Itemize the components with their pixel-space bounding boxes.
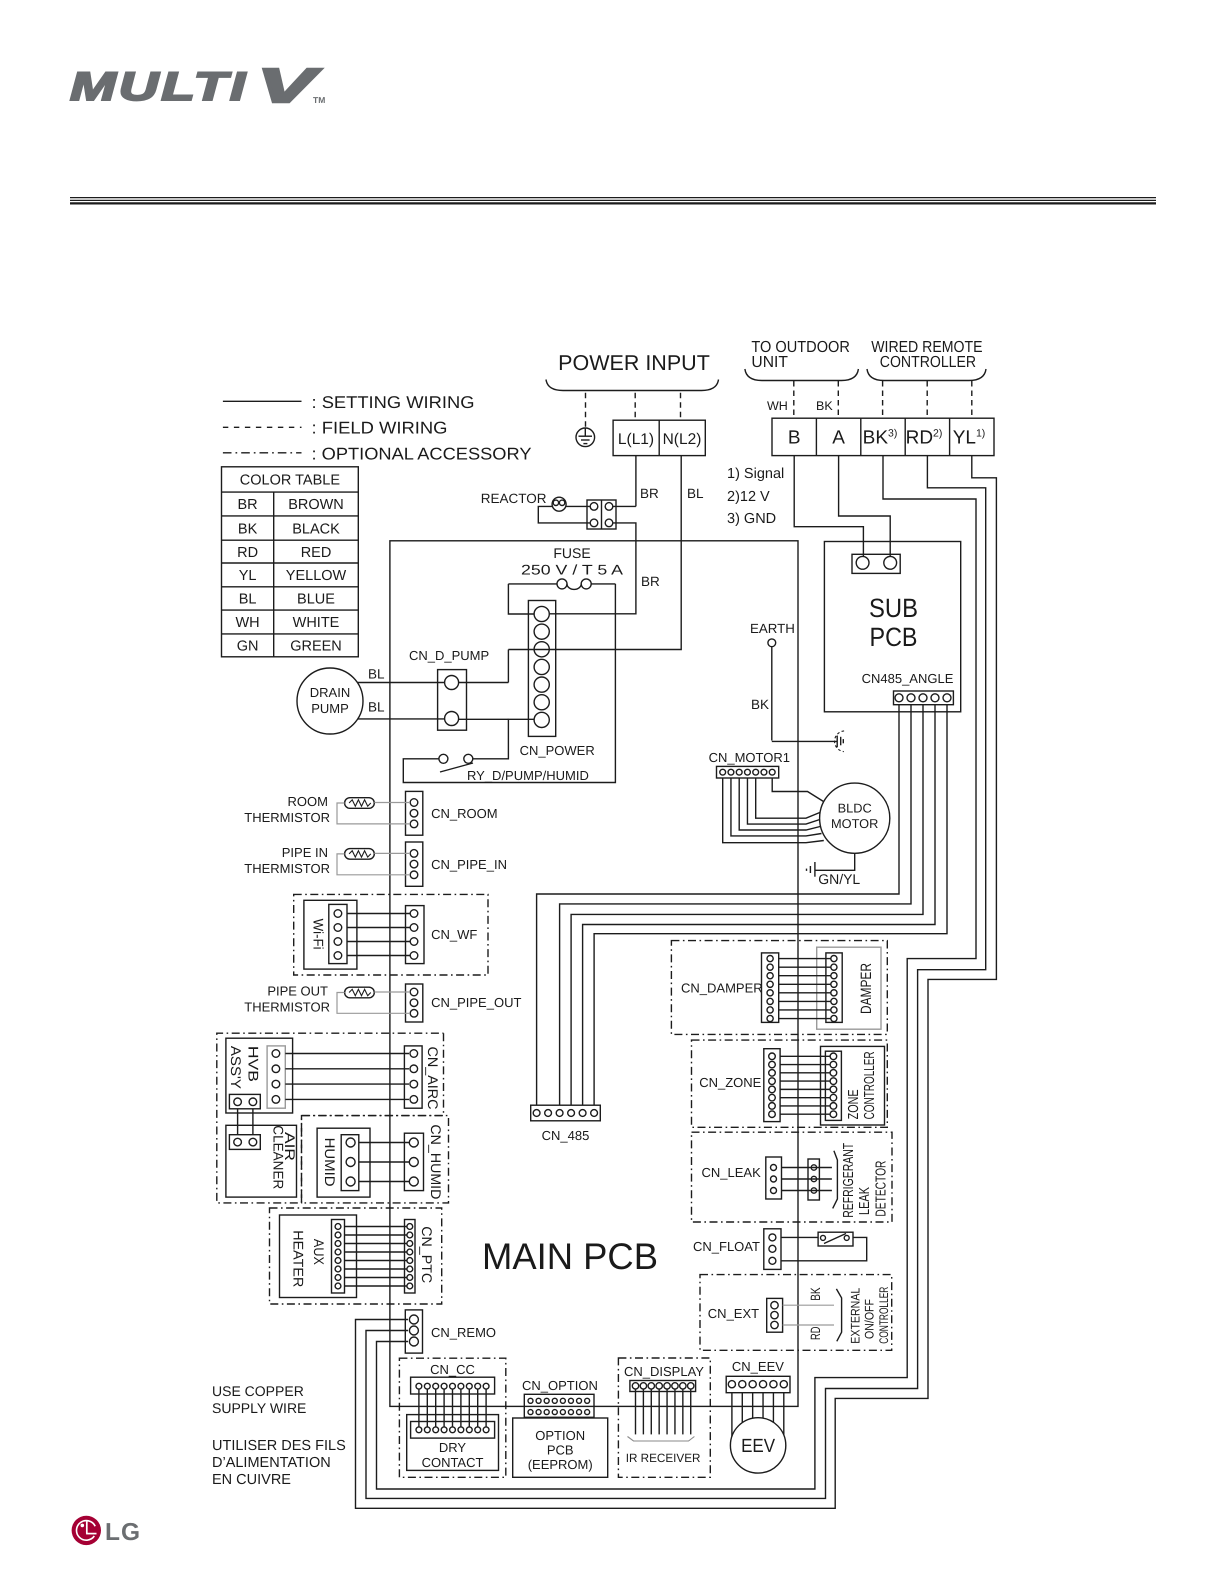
svg-text:CONTROLLER: CONTROLLER: [880, 354, 976, 371]
svg-text:: SETTING WIRING: : SETTING WIRING: [312, 393, 475, 412]
svg-text:GN/YL: GN/YL: [818, 871, 860, 887]
svg-text:RD: RD: [237, 545, 258, 561]
svg-text:BK: BK: [751, 697, 769, 712]
svg-text:HUMID: HUMID: [322, 1138, 338, 1187]
svg-text:CN_PIPE_OUT: CN_PIPE_OUT: [431, 995, 521, 1010]
svg-text:CN_DAMPER: CN_DAMPER: [681, 981, 763, 996]
svg-text:3) GND: 3) GND: [727, 511, 776, 527]
svg-text:EXTERNAL: EXTERNAL: [849, 1288, 863, 1344]
svg-text:COLOR TABLE: COLOR TABLE: [240, 473, 341, 489]
svg-text:SUB: SUB: [869, 593, 918, 623]
svg-text:THERMISTOR: THERMISTOR: [244, 861, 330, 876]
svg-text:D’ALIMENTATION: D’ALIMENTATION: [212, 1455, 331, 1471]
svg-text:THERMISTOR: THERMISTOR: [244, 1000, 330, 1015]
svg-text:BROWN: BROWN: [288, 497, 344, 513]
svg-text:OPTION: OPTION: [535, 1428, 585, 1443]
svg-text:PIPE OUT: PIPE OUT: [267, 984, 328, 999]
svg-text:DRY: DRY: [439, 1440, 467, 1455]
svg-text:CN_PTC: CN_PTC: [419, 1226, 435, 1283]
svg-text:(EEPROM): (EEPROM): [528, 1457, 593, 1472]
svg-text:PUMP: PUMP: [311, 701, 349, 716]
svg-text:PCB: PCB: [547, 1443, 574, 1458]
svg-text:CN_485: CN_485: [542, 1128, 590, 1143]
svg-text:AUX: AUX: [311, 1239, 327, 1266]
svg-text:RED: RED: [301, 545, 332, 561]
svg-text:PIPE IN: PIPE IN: [282, 845, 328, 860]
svg-text:CN_D_PUMP: CN_D_PUMP: [409, 648, 489, 663]
svg-text:BLACK: BLACK: [292, 521, 340, 537]
svg-text:CONTACT: CONTACT: [422, 1455, 484, 1470]
svg-text:WH: WH: [236, 615, 260, 631]
svg-text:USE COPPER: USE COPPER: [212, 1383, 304, 1399]
svg-text:CN_MOTOR1: CN_MOTOR1: [709, 750, 790, 765]
svg-text:CONTROLLER: CONTROLLER: [877, 1287, 891, 1344]
svg-text:PCB: PCB: [870, 622, 918, 652]
svg-text:THERMISTOR: THERMISTOR: [244, 810, 330, 825]
svg-text:Wi-Fi: Wi-Fi: [310, 919, 326, 950]
svg-text:DAMPER: DAMPER: [858, 963, 875, 1014]
svg-text:YL: YL: [239, 568, 257, 584]
svg-text:BK: BK: [238, 521, 258, 537]
svg-text:EARTH: EARTH: [750, 621, 795, 636]
svg-text:BK: BK: [808, 1287, 823, 1300]
svg-text:2)12 V: 2)12 V: [727, 489, 770, 505]
svg-text:1) Signal: 1) Signal: [727, 466, 784, 482]
svg-text:REFRIGERANT: REFRIGERANT: [841, 1143, 857, 1218]
svg-text:BR: BR: [238, 497, 258, 513]
svg-text:EEV: EEV: [741, 1436, 775, 1457]
svg-text:FUSE: FUSE: [553, 545, 590, 561]
svg-text:BR: BR: [640, 486, 659, 501]
svg-text:CN_DISPLAY: CN_DISPLAY: [624, 1364, 704, 1379]
svg-text:BLUE: BLUE: [297, 592, 335, 608]
svg-text:V: V: [257, 60, 322, 113]
svg-text:HEATER: HEATER: [290, 1230, 306, 1287]
svg-text:YELLOW: YELLOW: [286, 568, 347, 584]
svg-text:A: A: [832, 428, 845, 449]
svg-text:CN_CC: CN_CC: [430, 1362, 475, 1377]
svg-text:N(L2): N(L2): [663, 431, 702, 448]
svg-text:CN_POWER: CN_POWER: [520, 743, 595, 758]
svg-text:GN: GN: [237, 639, 259, 655]
svg-text:LEAK: LEAK: [857, 1187, 873, 1215]
svg-text:UTILISER DES FILS: UTILISER DES FILS: [212, 1438, 346, 1454]
svg-text:250 V / T 5 A: 250 V / T 5 A: [521, 562, 624, 578]
svg-text:CN_EXT: CN_EXT: [708, 1306, 759, 1321]
svg-text:DETECTOR: DETECTOR: [874, 1161, 890, 1217]
svg-text:ON/OFF: ON/OFF: [863, 1299, 877, 1339]
svg-text:BL: BL: [687, 486, 704, 501]
svg-text:TM: TM: [313, 95, 325, 105]
svg-text:CN_PIPE_IN: CN_PIPE_IN: [431, 857, 507, 872]
svg-text:L(L1): L(L1): [618, 431, 654, 448]
svg-text:CN_AIRC: CN_AIRC: [425, 1047, 441, 1110]
svg-text:MAIN PCB: MAIN PCB: [482, 1236, 658, 1277]
svg-text:CN_OPTION: CN_OPTION: [522, 1378, 598, 1393]
svg-text:: OPTIONAL ACCESSORY: : OPTIONAL ACCESSORY: [312, 444, 532, 463]
svg-text:WHITE: WHITE: [293, 615, 340, 631]
svg-text:BL: BL: [368, 667, 385, 682]
svg-text:CONTROLLER: CONTROLLER: [862, 1051, 878, 1119]
svg-text:LG: LG: [105, 1519, 141, 1546]
svg-text:CN_REMO: CN_REMO: [431, 1325, 496, 1340]
svg-text:ASS'Y: ASS'Y: [228, 1046, 244, 1090]
svg-text:BL: BL: [368, 700, 385, 715]
svg-text:RD: RD: [808, 1326, 823, 1340]
svg-text:CN_FLOAT: CN_FLOAT: [693, 1239, 760, 1254]
svg-text:BLDC: BLDC: [838, 801, 872, 816]
svg-text:EN CUIVRE: EN CUIVRE: [212, 1472, 291, 1488]
svg-text:SUPPLY WIRE: SUPPLY WIRE: [212, 1400, 306, 1416]
svg-text:CN_HUMID: CN_HUMID: [428, 1124, 444, 1199]
svg-text:BL: BL: [239, 592, 257, 608]
svg-text:CN485_ANGLE: CN485_ANGLE: [862, 671, 954, 686]
svg-text:ROOM: ROOM: [288, 794, 328, 809]
svg-text:WH: WH: [767, 399, 788, 413]
svg-text:DRAIN: DRAIN: [310, 685, 350, 700]
svg-text:UNIT: UNIT: [751, 354, 788, 371]
svg-text:CN_ROOM: CN_ROOM: [431, 806, 497, 821]
svg-text:POWER INPUT: POWER INPUT: [558, 351, 710, 375]
svg-text:RY_D/PUMP/HUMID: RY_D/PUMP/HUMID: [467, 768, 589, 783]
svg-text:B: B: [788, 428, 801, 449]
svg-text:IR RECEIVER: IR RECEIVER: [626, 1451, 701, 1465]
svg-text:MOTOR: MOTOR: [831, 816, 878, 831]
svg-text:: FIELD WIRING: : FIELD WIRING: [312, 419, 448, 438]
svg-text:CLEANER: CLEANER: [271, 1125, 287, 1189]
svg-text:HVB: HVB: [246, 1046, 262, 1082]
svg-text:CN_LEAK: CN_LEAK: [702, 1165, 762, 1180]
svg-text:CN_EEV: CN_EEV: [732, 1359, 784, 1374]
svg-text:ZONE: ZONE: [846, 1089, 862, 1119]
svg-text:CN_WF: CN_WF: [431, 927, 477, 942]
svg-text:CN_ZONE: CN_ZONE: [699, 1075, 761, 1090]
svg-text:BR: BR: [641, 574, 660, 589]
svg-text:BK: BK: [816, 399, 833, 413]
svg-text:MULTI: MULTI: [70, 65, 248, 109]
svg-text:REACTOR: REACTOR: [481, 491, 547, 506]
svg-text:GREEN: GREEN: [290, 639, 342, 655]
